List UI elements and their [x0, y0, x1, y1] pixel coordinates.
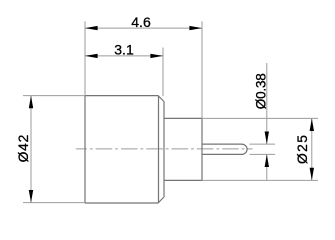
arrowhead 4.6 left	[85, 26, 98, 30]
svg-text:Ø25: Ø25	[295, 134, 310, 164]
small cylinder outline	[164, 118, 202, 180]
extension line left of body left edge (for 4.6 and 3.1)	[84, 21, 86, 95]
arrowhead D25 bottom	[310, 168, 314, 181]
body large cylinder outline	[85, 96, 164, 203]
dimension line D25	[311, 118, 313, 180]
arrowhead D25 top	[310, 118, 314, 131]
pin outline	[202, 144, 247, 154]
extension line body top (for D42)	[23, 95, 85, 97]
body chamfer edge line	[158, 96, 160, 203]
dimension line D0.38 upper segment	[266, 63, 268, 144]
extension line right edge of body (for 3.1)	[162, 48, 164, 97]
extension line cylinder top (for D25)	[202, 117, 318, 119]
arrowhead 4.6 right	[189, 26, 202, 30]
dimension line D0.38 lower segment	[266, 154, 268, 180]
svg-text:Ø42: Ø42	[16, 134, 31, 162]
extension line pin bottom (for D0.38)	[250, 153, 276, 155]
extension line pin top (for D0.38)	[250, 143, 276, 145]
dimension line 3.1	[85, 55, 163, 57]
centerline axis	[76, 148, 253, 150]
dimension line 4.6	[85, 27, 202, 29]
svg-text:4.6: 4.6	[131, 14, 151, 30]
arrowhead D42 bottom	[29, 190, 33, 203]
svg-text:Ø0.38: Ø0.38	[253, 73, 268, 109]
arrowhead D42 top	[29, 96, 33, 109]
svg-text:3.1: 3.1	[114, 42, 134, 58]
extension line cylinder bottom (for D25)	[202, 179, 318, 181]
arrowhead D0.38 lower pointing up	[265, 154, 269, 167]
extension line right end of small cylinder (for 4.6)	[201, 21, 203, 118]
arrowhead D0.38 upper pointing down	[265, 132, 269, 145]
arrowhead 3.1 left	[85, 54, 98, 58]
arrowhead 3.1 right	[150, 54, 163, 58]
extension line body bottom (for D42)	[23, 202, 85, 204]
dimension line D42	[30, 96, 32, 203]
